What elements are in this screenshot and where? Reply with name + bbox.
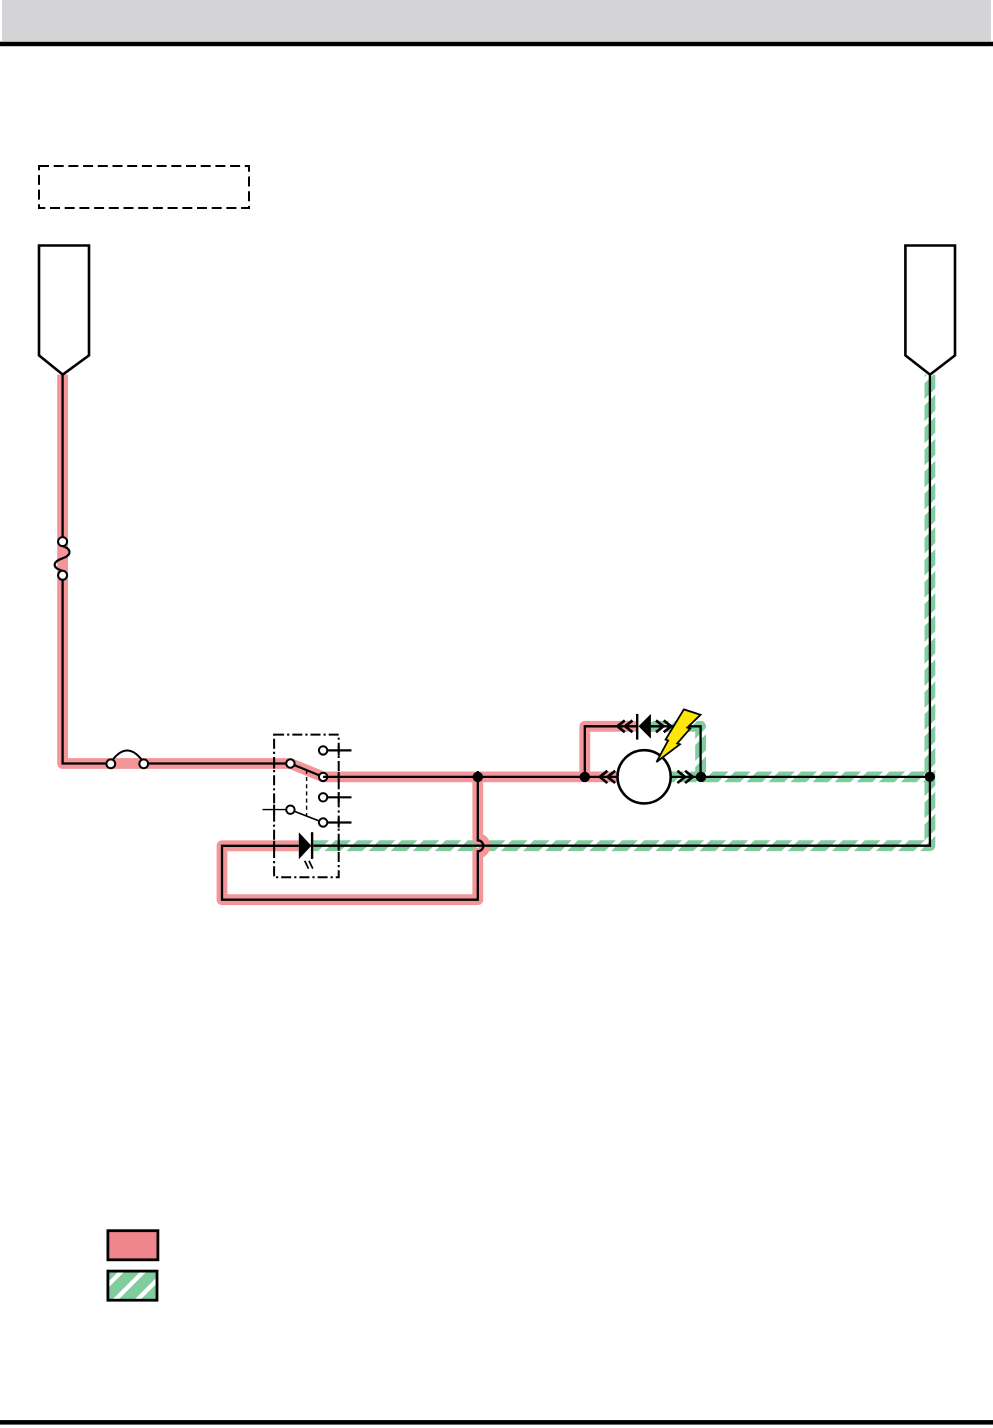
wire: left vertical upper segment	[61, 375, 63, 538]
wire: motor right run	[671, 776, 930, 778]
LED triangle (in switch box)	[299, 832, 312, 859]
LED cathode bar	[311, 832, 313, 859]
wire: top diode branch left (red part)	[585, 726, 637, 777]
LED emission ticks	[305, 861, 313, 869]
chevrons top-left (current direction)	[617, 720, 632, 732]
terminal lead top right	[327, 749, 352, 751]
header rule	[0, 42, 993, 47]
motor circle	[618, 750, 671, 803]
top diode (cathode bar)	[636, 714, 638, 740]
junction dot right of motor	[696, 772, 706, 782]
wire highlight: green hatched net (top diode branch right side)	[651, 726, 701, 777]
chevrons top-right	[656, 720, 671, 732]
wire: top diode branch right (green part)	[651, 726, 701, 777]
wire: red loop with hop	[222, 771, 483, 900]
wire highlight: red loop through LED (with hop over green wire)	[222, 777, 485, 900]
footer rule	[0, 1420, 993, 1425]
inline connector circle right	[139, 759, 148, 768]
wire: left vertical lower + corner to connector	[63, 580, 107, 764]
terminal lead bottom right	[327, 821, 352, 823]
pole 2 left lead	[263, 809, 287, 811]
chevrons left of motor	[600, 771, 615, 783]
wire highlight: red power feed (left vertical, main run, switch arm)	[63, 375, 618, 777]
wire: switch output to motor	[323, 776, 617, 778]
wire highlight: green hatched net (right vertical + bottom horizontal)	[313, 375, 930, 846]
pin ticks on box border	[274, 745, 339, 850]
inline connector bridge arc	[113, 751, 142, 761]
terminal lead mid right	[327, 796, 352, 798]
lightning bolt (flasher symbol)	[657, 709, 701, 762]
junction dot at loop tap	[473, 772, 483, 782]
switch terminal circle: pole2 common	[286, 806, 294, 814]
fusible link terminal circle bottom	[58, 571, 67, 580]
inline connector circle left	[106, 759, 115, 768]
legend swatch: red	[108, 1231, 158, 1260]
junction dot at diode branch tap	[580, 772, 590, 782]
header bar	[2, 0, 991, 41]
junction dot on right vertical	[925, 772, 935, 782]
switch terminal circle: pole1 common	[286, 759, 294, 767]
title dashed box	[39, 166, 249, 208]
switch pole 1 arm	[290, 764, 323, 777]
wire: connector to switch common	[148, 762, 290, 764]
top diode triangle	[639, 714, 651, 739]
switch terminal circle: pole2 output	[319, 818, 327, 826]
wire highlight: red top diode branch	[585, 726, 637, 777]
wire: right vertical + bottom green run	[313, 375, 930, 846]
wire highlight: green hatched net (motor right to right vertical)	[671, 772, 930, 783]
switch terminal circle: mid right	[319, 793, 327, 801]
connector flag left (battery feed)	[39, 246, 89, 375]
switch box (dash-dot)	[274, 735, 339, 878]
switch pole 2 arm	[290, 810, 323, 823]
switch terminal circle: pole1 output	[319, 773, 327, 781]
connector flag right (ground side)	[905, 246, 955, 375]
fusible link terminal circle top	[58, 537, 67, 546]
legend swatch: green hatched	[108, 1271, 157, 1300]
chevrons right of motor	[677, 771, 692, 783]
switch terminal circle: top right	[319, 746, 327, 754]
fusible link wave	[55, 546, 70, 571]
mechanical link (dashed)	[306, 770, 308, 816]
